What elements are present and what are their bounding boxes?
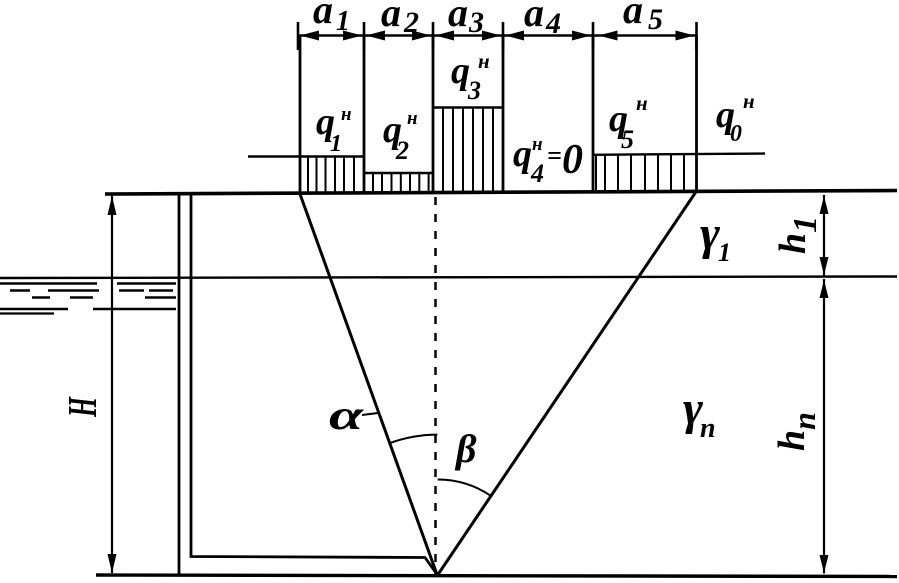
svg-text:2: 2 [395, 136, 409, 165]
hn dimension line [823, 279, 825, 574]
svg-text:a: a [448, 0, 468, 35]
load bar edge 5 [592, 36, 595, 193]
svg-text:н: н [341, 104, 352, 125]
svg-text:a: a [524, 0, 544, 35]
svg-text:β: β [454, 426, 477, 471]
svg-text:a: a [381, 0, 401, 35]
H dimension bottom arrow [108, 554, 117, 573]
svg-text:0: 0 [730, 121, 742, 147]
load bar edge 6 [695, 36, 698, 192]
svg-text:3: 3 [468, 6, 484, 39]
left slope line [300, 194, 437, 575]
svg-text:5: 5 [648, 3, 663, 36]
wall inner line with bottom bend [191, 193, 436, 573]
svg-text:н: н [636, 91, 648, 115]
svg-text:н: н [532, 134, 543, 155]
beta arc [438, 480, 491, 496]
load q5 hatch [596, 155, 684, 192]
dimension ticks [298, 22, 697, 50]
svg-text:4: 4 [545, 7, 561, 40]
load q2 hatch top [364, 172, 433, 174]
svg-text:1: 1 [336, 6, 350, 37]
svg-text:н: н [407, 108, 418, 129]
right slope line [438, 191, 697, 575]
dimension arrows a5 [599, 31, 695, 41]
load q3 hatch top [433, 106, 503, 108]
svg-text:3: 3 [467, 76, 481, 105]
hn bottom arrow [820, 555, 829, 573]
load bar edge 1 [299, 36, 302, 195]
h1 bottom arrow [820, 257, 829, 275]
water hatch line 3 [10, 289, 173, 291]
water hatch line 5 [0, 308, 176, 310]
load q2 hatch [373, 173, 429, 194]
svg-text:h1: h1 [772, 216, 824, 254]
baseline [96, 575, 897, 577]
svg-text:=: = [547, 141, 562, 170]
svg-text:H: H [60, 396, 106, 417]
dimension arrows a1 [300, 31, 362, 41]
load q3 hatch [443, 108, 493, 194]
load q5 hatch top and right reference line [593, 154, 765, 155]
svg-text:4: 4 [530, 159, 544, 188]
load q1 hatch [308, 157, 354, 195]
svg-text:1: 1 [718, 238, 731, 267]
svg-text:5: 5 [621, 125, 634, 154]
load bar edge 4 [502, 36, 505, 194]
wall outer line [178, 193, 181, 575]
load bar edge 2 [363, 36, 366, 195]
dimension line top shaft [297, 34, 697, 37]
alpha leader tail [362, 413, 378, 415]
H dimension line [111, 195, 113, 573]
svg-text:a: a [623, 0, 643, 32]
svg-text:н: н [478, 49, 490, 73]
svg-text:н: н [743, 89, 755, 113]
hn top arrow [820, 280, 829, 298]
svg-text:п: п [700, 413, 716, 444]
svg-text:α: α [329, 393, 364, 439]
svg-text:hп: hп [771, 412, 822, 451]
h1 dimension line [823, 195, 825, 276]
svg-text:1: 1 [330, 131, 342, 157]
reference line left and q1 hatch top [248, 155, 364, 157]
H dimension top arrow [108, 196, 117, 215]
load bar edge 3 [432, 36, 435, 195]
dimension arrows a2 [366, 31, 431, 41]
svg-text:0: 0 [562, 137, 583, 183]
dashed axis line [434, 197, 437, 574]
dimension arrows a3 [435, 31, 501, 41]
ground line [105, 191, 897, 195]
alpha arc [390, 435, 437, 443]
h1 top arrow [820, 196, 829, 214]
svg-text:a: a [313, 0, 333, 32]
layer boundary line [0, 277, 897, 279]
svg-text:γ: γ [700, 207, 720, 260]
water hatch line 2 [0, 282, 176, 285]
water hatch line 4 [32, 296, 176, 298]
svg-text:2: 2 [403, 6, 419, 39]
water hatch line 6 [0, 312, 54, 314]
svg-text:q: q [513, 133, 532, 175]
dimension arrows a4 [505, 31, 591, 41]
